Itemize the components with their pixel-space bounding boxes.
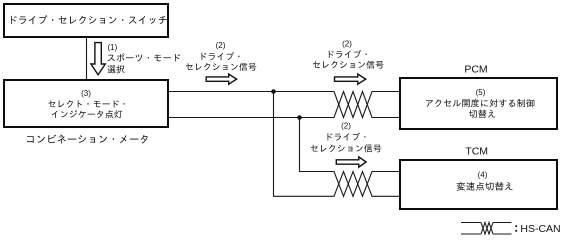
- svg-text:(2): (2): [216, 41, 226, 50]
- svg-text:(2): (2): [342, 40, 352, 49]
- svg-text:(1): (1): [108, 43, 118, 52]
- svg-text:(5): (5): [476, 88, 486, 97]
- svg-text:PCM: PCM: [464, 64, 487, 76]
- svg-text:TCM: TCM: [465, 145, 488, 157]
- svg-text:HS-CAN: HS-CAN: [520, 223, 560, 235]
- svg-text:(3): (3): [81, 89, 91, 98]
- svg-text:(4): (4): [478, 171, 488, 180]
- svg-text:(2): (2): [341, 121, 351, 130]
